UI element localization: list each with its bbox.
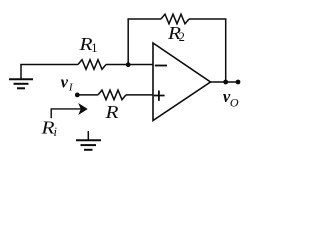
svg-text:i: i [54,125,58,139]
wire (feedback right vertical) [225,19,227,82]
ground (floating, below Ri) [76,131,101,150]
wire (ground to R1) [20,64,78,66]
node (inverting input junction) [126,62,131,67]
resistor R2 [161,14,189,24]
wire (R1 to inverting input) [106,64,153,66]
label R [104,102,118,122]
wire (op-amp output) [211,81,239,83]
svg-text:O: O [230,96,239,110]
svg-text:I: I [68,82,74,94]
svg-text:R: R [104,102,118,122]
op-amp U1 [153,43,211,121]
wire (vI to R) [77,94,98,96]
svg-text:R: R [40,118,54,138]
label vI [61,73,74,94]
label Ri [40,118,57,140]
label R1 [78,34,97,55]
svg-text:v: v [61,73,69,92]
arrow Ri (input resistance indicator) [51,104,87,118]
label vO [223,87,239,109]
wire (feedback top left segment) [127,18,161,20]
wire (feedback left vertical) [127,19,129,65]
resistor R [98,90,126,100]
terminal (output) [236,80,241,85]
wire (feedback top right segment) [189,18,226,20]
wire (R to non-inverting input) [126,94,153,96]
svg-text:2: 2 [179,30,185,44]
resistor R1 [78,60,106,70]
ground (left input ground) [9,65,33,89]
node (output feedback junction) [223,80,228,85]
label R2 [167,23,185,44]
node vI (input terminal) [75,93,80,98]
svg-text:1: 1 [91,41,97,55]
